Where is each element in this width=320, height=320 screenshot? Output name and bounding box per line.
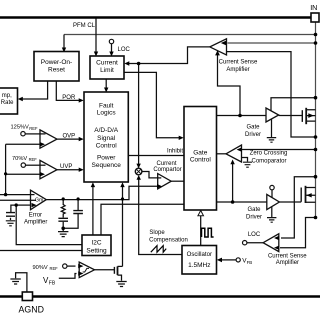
svg-text:125%V: 125%V xyxy=(11,125,30,131)
svg-text:Power: Power xyxy=(97,155,116,162)
svg-text:FB: FB xyxy=(49,281,56,287)
svg-text:mp,: mp, xyxy=(2,93,12,99)
svg-text:90%V: 90%V xyxy=(33,265,48,271)
svg-text:POR: POR xyxy=(62,95,76,101)
svg-text:Control: Control xyxy=(190,156,212,163)
svg-text:70%V: 70%V xyxy=(12,156,27,162)
svg-text:REF: REF xyxy=(50,266,59,271)
svg-text:Slope: Slope xyxy=(149,230,165,236)
svg-text:Oscillator: Oscillator xyxy=(187,251,212,258)
svg-text:Current: Current xyxy=(96,60,118,67)
svg-text:Inhibit: Inhibit xyxy=(167,149,183,155)
svg-text:Gm: Gm xyxy=(35,198,43,204)
svg-text:Amplifier: Amplifier xyxy=(24,220,47,226)
svg-text:REF: REF xyxy=(29,157,38,162)
svg-text:Setting: Setting xyxy=(86,247,107,254)
svg-text:Amplifier: Amplifier xyxy=(276,260,299,266)
svg-text:REF: REF xyxy=(29,126,38,131)
svg-text:Power-On-: Power-On- xyxy=(41,59,72,66)
svg-text:Amplifier: Amplifier xyxy=(226,67,249,73)
svg-text:Signal: Signal xyxy=(97,135,116,142)
svg-text:OVP: OVP xyxy=(63,134,76,140)
svg-text:I2C: I2C xyxy=(91,240,101,247)
svg-text:Error: Error xyxy=(29,213,42,219)
svg-text:Current Sense: Current Sense xyxy=(219,59,258,65)
svg-text:IN: IN xyxy=(310,3,317,12)
svg-text:AGND: AGND xyxy=(19,305,44,315)
svg-text:Rate: Rate xyxy=(1,100,14,106)
svg-text:UVP: UVP xyxy=(60,164,72,170)
svg-text:Reset: Reset xyxy=(48,67,65,74)
svg-text:Fault: Fault xyxy=(99,102,114,109)
svg-text:FB: FB xyxy=(247,260,253,265)
svg-text:LOC: LOC xyxy=(118,47,131,53)
svg-text:Logics: Logics xyxy=(97,109,117,116)
svg-text:Control: Control xyxy=(96,143,118,150)
svg-text:Zero Crossing: Zero Crossing xyxy=(250,151,288,157)
svg-text:Gate: Gate xyxy=(247,207,261,213)
svg-text:Driver: Driver xyxy=(245,132,261,138)
svg-text:Compensation: Compensation xyxy=(149,238,188,244)
svg-text:Current Sense: Current Sense xyxy=(268,254,307,260)
svg-text:Sequence: Sequence xyxy=(92,162,122,169)
svg-text:Compartor: Compartor xyxy=(153,167,181,173)
svg-text:1.5MHz: 1.5MHz xyxy=(188,262,210,269)
svg-text:A/D-D/A: A/D-D/A xyxy=(94,127,119,134)
svg-text:PFM CL: PFM CL xyxy=(73,23,96,29)
svg-text:Comoparator: Comoparator xyxy=(251,158,286,164)
svg-text:Gate: Gate xyxy=(246,125,260,131)
svg-text:Limit: Limit xyxy=(100,67,114,74)
svg-text:LOC: LOC xyxy=(248,232,261,238)
svg-text:Driver: Driver xyxy=(246,214,262,220)
